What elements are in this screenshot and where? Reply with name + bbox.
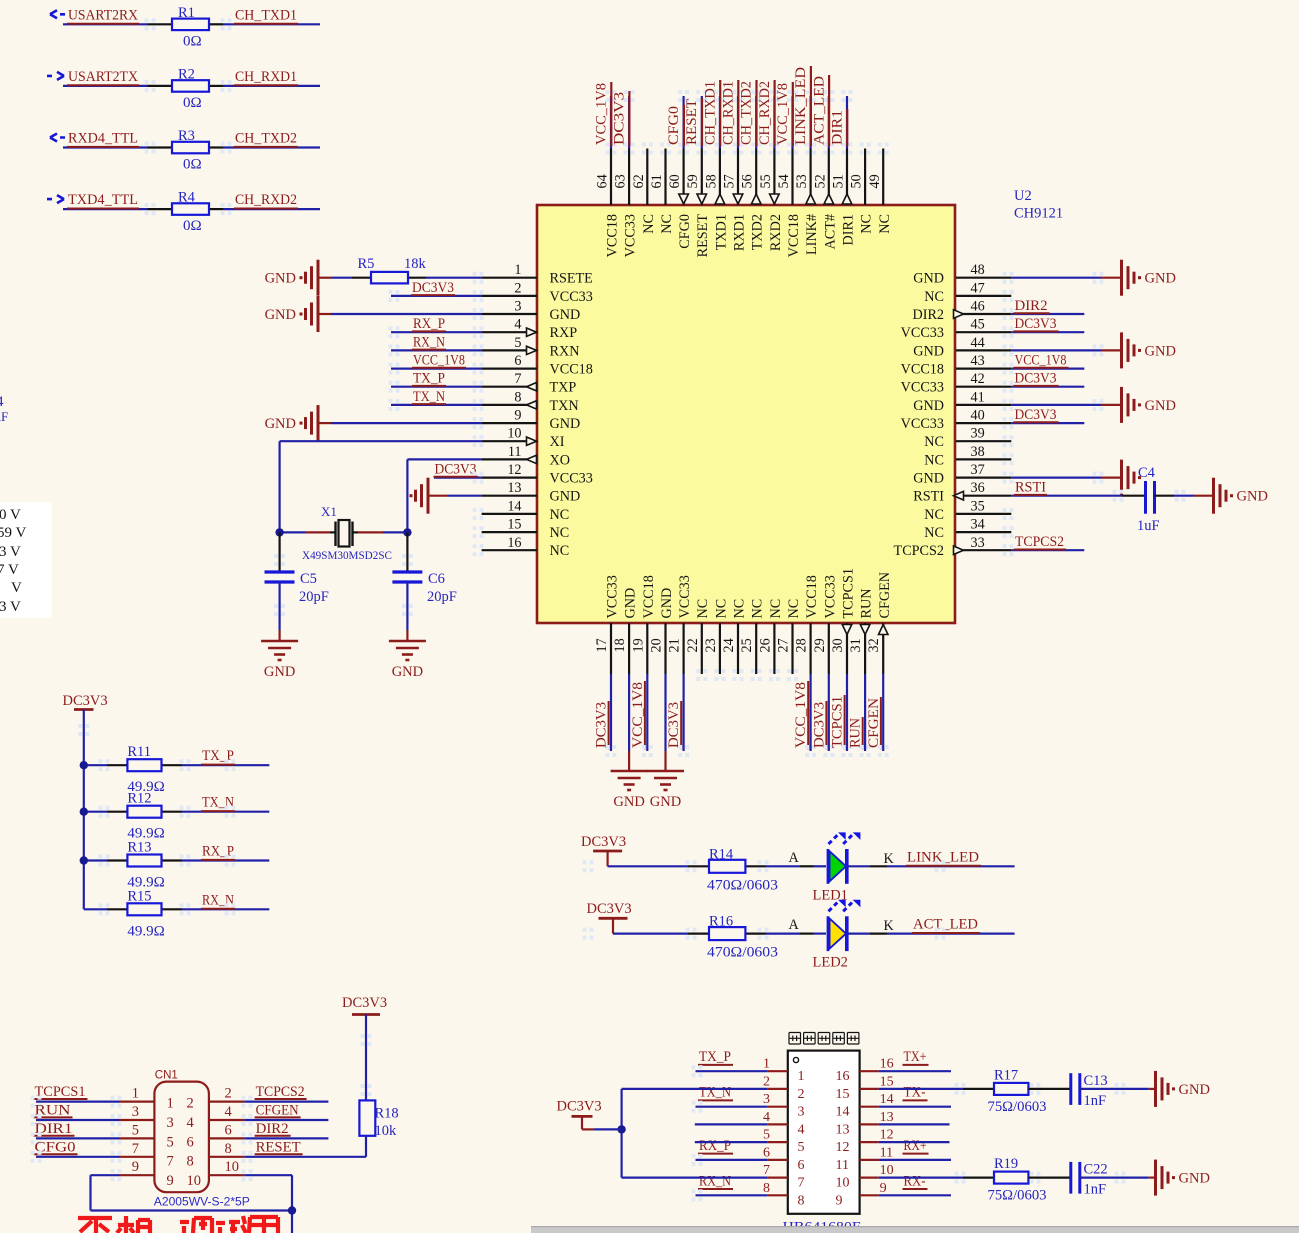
svg-text:6: 6: [514, 353, 521, 369]
svg-text:3: 3: [763, 1092, 770, 1107]
wire pin6 VCC_1V8: [391, 368, 482, 370]
svg-text:6: 6: [763, 1145, 770, 1160]
net label CFG0: [36, 1156, 120, 1158]
CN1 right pin 8 wire: [209, 1156, 244, 1158]
svg-text:58: 58: [703, 174, 719, 188]
wire pin7 TX_P: [391, 386, 482, 388]
led arrows: [829, 834, 839, 844]
svg-text:53: 53: [794, 174, 810, 188]
wire pin8 TX_N: [391, 404, 482, 406]
wire T1 TX_N: [696, 1106, 768, 1108]
svg-text:26: 26: [757, 638, 773, 652]
svg-text:12: 12: [507, 462, 521, 478]
svg-text:DIR2: DIR2: [256, 1121, 289, 1137]
wire pin5 RX_N: [391, 349, 482, 351]
T1 pin 13 wire: [860, 1123, 879, 1125]
resistor R17: [994, 1083, 1028, 1095]
svg-text:VCC18: VCC18: [901, 362, 944, 378]
wire C5 top: [279, 532, 281, 571]
svg-text:K: K: [884, 851, 895, 867]
svg-text:RESET: RESET: [684, 99, 700, 145]
svg-text:GND: GND: [550, 489, 581, 505]
svg-text:RXN: RXN: [550, 343, 580, 359]
wire pin32 bottom stub: [882, 623, 884, 674]
wire pin57 net: [737, 96, 739, 149]
wire pin52 top stub: [828, 149, 830, 206]
svg-text:NC: NC: [550, 507, 570, 523]
svg-text:GND: GND: [913, 398, 944, 414]
svg-text:16: 16: [836, 1069, 850, 1084]
svg-text:2: 2: [763, 1074, 770, 1089]
wire pin46 DIR2: [956, 313, 1011, 315]
pin52 arrow: [824, 194, 834, 204]
T1 pin 8 wire: [768, 1194, 788, 1196]
wire CN1 pin9 loop: [91, 1174, 120, 1176]
svg-text:NC: NC: [750, 599, 766, 619]
svg-text:GND: GND: [1237, 489, 1268, 505]
wire XO vertical: [406, 459, 408, 532]
svg-text:40: 40: [971, 408, 985, 424]
svg-text:DC3V3: DC3V3: [666, 702, 682, 748]
svg-text:GND: GND: [659, 588, 675, 619]
svg-text:R19: R19: [994, 1156, 1018, 1172]
svg-text:TX_P: TX_P: [413, 371, 445, 387]
svg-text:VCC33: VCC33: [822, 575, 838, 618]
svg-text:NC: NC: [550, 543, 570, 559]
wire pin29 net: [828, 674, 830, 751]
svg-text:20pF: 20pF: [427, 589, 457, 605]
svg-text:C4: C4: [1138, 465, 1156, 481]
svg-text:3: 3: [798, 1105, 805, 1120]
svg-text:8: 8: [763, 1181, 770, 1196]
wire pin58 top stub: [719, 149, 721, 206]
ground pin1: [317, 260, 320, 296]
svg-text:NC: NC: [786, 599, 802, 619]
svg-text:9: 9: [836, 1193, 843, 1208]
svg-text:GND: GND: [265, 416, 296, 432]
wire pin59 top stub: [701, 149, 703, 206]
svg-text:1uF: 1uF: [1137, 518, 1160, 534]
CN1 left pin 7 wire: [120, 1156, 155, 1158]
net label CFGEN: [244, 1119, 328, 1121]
CN1 left pin 5 wire: [120, 1137, 155, 1139]
svg-text:GND: GND: [1179, 1082, 1210, 1098]
svg-text:RXD4_TTL: RXD4_TTL: [68, 131, 138, 147]
CN1 right pin 4 wire: [209, 1119, 244, 1121]
wire pin56 top stub: [755, 149, 757, 206]
wire pin45 DC3V3: [956, 331, 1011, 333]
led arrows: [829, 901, 839, 911]
svg-text:44: 44: [971, 335, 985, 351]
wire pin62 top stub: [646, 149, 648, 206]
svg-text:18: 18: [612, 638, 628, 652]
svg-text:47: 47: [971, 280, 985, 296]
svg-text:C5: C5: [300, 571, 317, 587]
svg-text:52: 52: [812, 174, 828, 188]
wire T1 to R19: [879, 1176, 963, 1178]
wire RXD4_TTL to R3: [63, 146, 148, 148]
svg-text:CH_RXD1: CH_RXD1: [235, 69, 297, 85]
svg-text:12: 12: [880, 1128, 894, 1143]
svg-text:RX-: RX-: [904, 1173, 926, 1189]
svg-text:10: 10: [880, 1163, 894, 1178]
svg-text:XI: XI: [550, 434, 565, 450]
diode LED1: [827, 849, 830, 884]
svg-text:GND: GND: [613, 794, 644, 810]
wire pin11 XO: [407, 458, 481, 460]
resistor R12: [127, 806, 161, 818]
svg-text:R11: R11: [127, 744, 151, 760]
svg-text:4: 4: [225, 1104, 233, 1120]
pin arrow out: [527, 401, 537, 409]
svg-text:TCPCS1: TCPCS1: [35, 1084, 86, 1100]
svg-text:GND: GND: [913, 271, 944, 287]
svg-text:X49SM30MSD2SC: X49SM30MSD2SC: [302, 548, 392, 562]
wire T1 RX_N: [696, 1194, 768, 1196]
capacitor C5: [265, 570, 295, 573]
svg-text:15: 15: [880, 1074, 894, 1089]
svg-text:GND: GND: [1179, 1171, 1210, 1187]
svg-text:38: 38: [971, 444, 985, 460]
wire pin19 net: [646, 674, 648, 751]
wire pin39 NC stub: [956, 440, 1011, 442]
svg-text:49.9Ω: 49.9Ω: [127, 923, 164, 939]
T1 pin 2 wire: [768, 1088, 788, 1090]
svg-text:VCC33: VCC33: [901, 380, 944, 396]
svg-text:7: 7: [798, 1176, 805, 1191]
svg-text:C6: C6: [428, 571, 445, 587]
svg-text:20: 20: [649, 638, 665, 652]
pin55 arrow: [770, 194, 780, 204]
svg-text:TCPCS2: TCPCS2: [1015, 534, 1064, 550]
resistor R3: [172, 142, 209, 154]
svg-text:1: 1: [514, 262, 521, 278]
svg-text:5: 5: [167, 1134, 174, 1150]
wire pin23 bottom stub: [719, 623, 721, 674]
svg-text:59 V: 59 V: [0, 525, 26, 541]
wire pin3 GND: [318, 313, 331, 315]
port arrow: [47, 195, 64, 203]
svg-text:R13: R13: [127, 840, 151, 856]
svg-text:ACT#: ACT#: [822, 214, 838, 249]
svg-text:RX_N: RX_N: [699, 1173, 731, 1189]
T1 pin 3 wire: [768, 1106, 788, 1108]
svg-text:17: 17: [594, 638, 610, 652]
net label DIR1: [36, 1137, 120, 1139]
svg-text:7: 7: [132, 1141, 139, 1157]
wire R15 row: [84, 908, 107, 910]
pin58 arrow: [715, 194, 725, 204]
svg-text:15: 15: [836, 1087, 850, 1102]
ground C6: [389, 640, 426, 643]
wire pin31 bottom stub: [864, 623, 866, 674]
svg-text:NC: NC: [924, 289, 944, 305]
svg-text:VCC18: VCC18: [786, 214, 802, 257]
svg-text:DC3V3: DC3V3: [63, 693, 108, 709]
svg-text:1nF: 1nF: [1084, 1182, 1107, 1198]
wire T1 RX_P: [696, 1159, 768, 1161]
svg-text:6: 6: [187, 1134, 194, 1150]
CN1 left pin 9 wire: [120, 1174, 155, 1176]
T1 pin 15 wire: [860, 1088, 879, 1090]
resistor R18: [359, 1100, 375, 1135]
wire pin38 NC stub: [956, 458, 1011, 460]
svg-text:57: 57: [722, 174, 738, 188]
svg-text:TX+: TX+: [904, 1049, 927, 1065]
wire pin30 net: [846, 674, 848, 751]
svg-text:GND: GND: [623, 588, 639, 619]
svg-text:2: 2: [225, 1086, 232, 1102]
svg-text:VCC33: VCC33: [550, 471, 593, 487]
junction: [80, 761, 88, 769]
svg-text:RUN: RUN: [848, 718, 864, 748]
wire pin59 net: [701, 96, 703, 149]
svg-text:VCC33: VCC33: [901, 416, 944, 432]
wire CN1 pin10: [244, 1174, 292, 1176]
CN1 right pin 2 wire: [209, 1100, 244, 1102]
svg-text:DC3V3: DC3V3: [412, 280, 454, 296]
wire XI vertical: [279, 441, 281, 532]
svg-text:TX_N: TX_N: [413, 389, 445, 405]
wire C5 bottom: [279, 582, 281, 630]
wire pin16 NC stub: [482, 549, 537, 551]
svg-text:12: 12: [836, 1140, 850, 1155]
svg-text:R2: R2: [178, 66, 195, 82]
svg-text:CH_RXD1: CH_RXD1: [721, 81, 737, 145]
svg-text:XO: XO: [550, 452, 571, 468]
connector CN1 body: [154, 1082, 209, 1193]
svg-text:9: 9: [514, 408, 521, 424]
svg-text:VCC_1V8: VCC_1V8: [793, 682, 809, 748]
svg-text:GND: GND: [913, 471, 944, 487]
wire crystal row: [280, 531, 305, 533]
svg-text:8: 8: [798, 1193, 805, 1208]
svg-text:DC3V3: DC3V3: [587, 901, 632, 917]
junction CN1 loop: [288, 1206, 296, 1214]
svg-text:R1: R1: [178, 5, 195, 21]
wire after led: [848, 932, 869, 934]
wire pin30 bottom stub: [846, 623, 848, 674]
svg-text:3: 3: [132, 1104, 139, 1120]
pin57 arrow: [733, 194, 743, 204]
svg-text:VCC33: VCC33: [623, 214, 639, 257]
wire pin61 top stub: [664, 149, 666, 206]
wire pin12 DC3V3: [434, 477, 482, 479]
wire pin18 gnd: [628, 674, 630, 751]
port arrow: [47, 72, 64, 80]
svg-text:RESET: RESET: [695, 214, 711, 258]
svg-text:DC3V3: DC3V3: [581, 834, 626, 850]
svg-text:K: K: [884, 918, 895, 934]
svg-text:NC: NC: [877, 214, 893, 234]
diode LED2: [827, 916, 830, 951]
wire R11 row: [84, 764, 107, 766]
resistor R2: [172, 80, 209, 92]
wire pin48 GND: [956, 277, 1011, 279]
svg-text:NC: NC: [695, 599, 711, 619]
svg-text:4: 4: [798, 1122, 805, 1137]
ground pin48: [1120, 260, 1123, 296]
svg-text:NC: NC: [659, 214, 675, 234]
svg-text:TXD2: TXD2: [750, 214, 766, 250]
ground pin9: [317, 405, 320, 441]
svg-text:36: 36: [971, 480, 985, 496]
svg-text:RSTI: RSTI: [1015, 480, 1046, 496]
wire T1 right TX+: [879, 1070, 951, 1072]
svg-text:TXD4_TTL: TXD4_TTL: [68, 192, 138, 208]
svg-text:TXD1: TXD1: [713, 214, 729, 250]
svg-text:DC3V3: DC3V3: [1015, 371, 1057, 387]
svg-text:R5: R5: [358, 256, 375, 272]
pin arrow out: [527, 383, 537, 391]
svg-text:14: 14: [507, 498, 521, 514]
svg-text:2: 2: [514, 280, 521, 296]
resistor R11: [127, 759, 161, 771]
svg-text:7: 7: [763, 1163, 770, 1178]
svg-text:470Ω/0603: 470Ω/0603: [707, 945, 778, 961]
svg-text:GND: GND: [550, 307, 581, 323]
svg-text:23: 23: [703, 638, 719, 652]
wire T1 pin5 stub: [695, 1141, 768, 1143]
wire C4 to GND: [1155, 495, 1175, 497]
wire T1 to R17: [879, 1088, 963, 1090]
wire pin32 net: [882, 674, 884, 751]
port arrow: [50, 10, 65, 18]
wire pin14 NC stub: [482, 513, 537, 515]
capacitor C13: [1069, 1073, 1072, 1105]
svg-text:R15: R15: [127, 888, 151, 904]
svg-text:15: 15: [507, 517, 521, 533]
svg-text:X1: X1: [321, 504, 337, 519]
net label RUN: [36, 1119, 120, 1121]
svg-text:62: 62: [631, 174, 647, 188]
wire pin37 GND: [956, 477, 1011, 479]
svg-text:CFGEN: CFGEN: [256, 1103, 299, 1119]
svg-text:VCC18: VCC18: [804, 575, 820, 618]
svg-text:NC: NC: [924, 525, 944, 541]
wire pin18 bottom stub: [628, 623, 630, 674]
wire R17 to C13: [1028, 1088, 1070, 1090]
svg-text:4: 4: [763, 1110, 770, 1125]
pin53 arrow: [806, 194, 816, 204]
svg-text:USART2RX: USART2RX: [68, 7, 138, 23]
pin33 arrow: [954, 546, 964, 555]
svg-text:RX_P: RX_P: [202, 844, 234, 860]
pin arrow in: [527, 328, 537, 336]
svg-text:A: A: [789, 917, 800, 933]
wire pin17 net: [610, 674, 612, 751]
CN1 left pin 3 wire: [120, 1119, 155, 1121]
pin31 arrow: [860, 625, 870, 635]
wire pin27 bottom stub: [791, 623, 793, 674]
svg-text:0Ω: 0Ω: [183, 218, 202, 234]
pin32 arrow: [879, 625, 889, 635]
svg-text:29: 29: [812, 638, 828, 652]
svg-text:2: 2: [187, 1096, 194, 1112]
port arrow: [50, 134, 65, 142]
svg-text:35: 35: [971, 498, 985, 514]
wire pin21 bottom stub: [682, 623, 684, 674]
ground C13: [1154, 1071, 1157, 1107]
ground C22: [1154, 1160, 1157, 1196]
wire pin63 top stub: [628, 149, 630, 206]
svg-text:DC3V3: DC3V3: [557, 1099, 602, 1115]
svg-text:0Ω: 0Ω: [183, 157, 202, 173]
svg-text:TX_N: TX_N: [202, 795, 234, 811]
svg-text:11: 11: [836, 1158, 849, 1173]
svg-text:CH_TXD1: CH_TXD1: [235, 7, 297, 23]
svg-text:NC: NC: [859, 214, 875, 234]
svg-text:11: 11: [880, 1145, 893, 1160]
svg-text:CH_RXD2: CH_RXD2: [757, 81, 773, 145]
resistor R19: [994, 1172, 1028, 1184]
ground pin44: [1120, 332, 1123, 368]
svg-text:6: 6: [225, 1122, 232, 1138]
svg-text:RX_P: RX_P: [699, 1138, 731, 1154]
svg-text:4: 4: [514, 317, 521, 333]
svg-text:27: 27: [776, 638, 792, 652]
svg-text:7: 7: [514, 371, 521, 387]
svg-text:CH_TXD2: CH_TXD2: [739, 81, 755, 145]
wire pin54 net: [791, 96, 793, 149]
wire R14 row: [608, 865, 688, 867]
svg-text:49: 49: [867, 174, 883, 188]
T1 pin 6 wire: [768, 1159, 788, 1161]
svg-text:NC: NC: [924, 434, 944, 450]
svg-text:55: 55: [758, 174, 774, 188]
ground C5: [261, 640, 298, 643]
svg-text:R17: R17: [994, 1067, 1018, 1083]
svg-text:GND: GND: [392, 664, 423, 680]
svg-text:R14: R14: [709, 846, 734, 862]
pin60 arrow: [679, 194, 689, 204]
svg-text:ACT_LED: ACT_LED: [811, 76, 827, 145]
resistor R16: [709, 927, 745, 940]
svg-text:R4: R4: [178, 190, 196, 206]
wire R18 bottom to RESET: [365, 1136, 367, 1157]
svg-text:37: 37: [971, 462, 985, 478]
svg-text:11: 11: [508, 444, 522, 460]
svg-text:V: V: [11, 580, 22, 596]
wire pin29 bottom stub: [828, 623, 830, 674]
capacitor C6: [392, 570, 422, 573]
svg-text:VCC_1V8: VCC_1V8: [630, 682, 646, 748]
svg-text:VCC18: VCC18: [641, 575, 657, 618]
svg-text:7 V: 7 V: [0, 562, 19, 578]
capacitor C4: [1144, 481, 1147, 514]
svg-text:9: 9: [167, 1173, 174, 1189]
svg-text:10: 10: [507, 426, 521, 442]
pin36 arrow: [954, 491, 964, 500]
svg-text:51: 51: [831, 174, 847, 188]
wire R13 row: [84, 859, 107, 861]
svg-text:39: 39: [971, 426, 985, 442]
T1 pin 9 wire: [860, 1194, 879, 1196]
wire pin40 DC3V3: [956, 422, 1011, 424]
T1 pin 14 wire: [860, 1106, 879, 1108]
junction: [80, 808, 88, 816]
wire pin58 net: [719, 96, 721, 149]
pin56 arrow: [751, 194, 761, 204]
svg-text:TCPCS2: TCPCS2: [256, 1084, 305, 1100]
svg-text:RXD2: RXD2: [768, 214, 784, 251]
svg-text:GND: GND: [913, 343, 944, 359]
svg-text:RXD1: RXD1: [732, 214, 748, 251]
wire pin35 NC stub: [956, 513, 1011, 515]
svg-text:13: 13: [507, 480, 521, 496]
svg-text:2uF: 2uF: [0, 409, 8, 424]
wire pin56 net: [755, 96, 757, 149]
